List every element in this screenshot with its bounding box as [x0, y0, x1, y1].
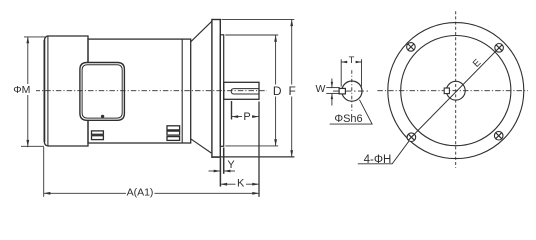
arrowheads: [26, 19, 293, 194]
dim W ext bottom: [326, 92, 340, 94]
flange disc: [212, 20, 220, 158]
vent slot right 3: [167, 137, 180, 141]
centerline side view: [36, 90, 267, 92]
arrow D bottom: [274, 139, 277, 146]
dim Y line right: [224, 170, 235, 172]
label T: [348, 55, 356, 66]
leader PhiSh6: [330, 100, 372, 124]
bolt hole top-left: [407, 43, 416, 52]
section key: [339, 88, 345, 94]
dim F ext top: [222, 18, 295, 20]
vent slot right 1: [167, 126, 180, 130]
dim F ext bottom: [212, 156, 294, 158]
bolt hole top-right: [495, 44, 504, 53]
vent slot left 2: [92, 136, 104, 140]
label A(A1): [126, 186, 155, 198]
arrow P right: [252, 115, 259, 118]
hub key square: [444, 88, 449, 94]
shaft: [224, 82, 259, 99]
svg-text:F: F: [289, 84, 296, 98]
arrow A left: [44, 192, 51, 195]
svg-text:W: W: [315, 83, 325, 95]
arrow A right: [252, 192, 259, 195]
dim P line: [232, 116, 259, 118]
arrow W top: [331, 82, 333, 88]
arrow Y right: [224, 170, 231, 173]
vent slot left 1: [92, 131, 104, 134]
arrow P left: [232, 115, 239, 118]
arrow W bottom: [331, 93, 333, 99]
arrow M top: [26, 37, 29, 44]
terminal box cover outer: [80, 63, 125, 121]
dim A line: [44, 192, 259, 194]
arrow K left: [220, 183, 227, 186]
dim T line: [341, 61, 361, 63]
svg-text:ΦM: ΦM: [13, 84, 30, 96]
arrow F bottom: [290, 150, 293, 157]
hub circle: [446, 81, 465, 100]
cone top edge: [191, 21, 212, 42]
terminal box cover inner: [82, 65, 122, 118]
shaft end ext line: [258, 102, 260, 197]
rear cap inner seam: [47, 36, 49, 146]
label PhiM: [13, 84, 32, 96]
flange outer circle: [388, 23, 524, 159]
section v centerline: [351, 70, 353, 111]
dim A ext left: [43, 147, 45, 197]
T arrows: [331, 61, 362, 99]
svg-text:K: K: [237, 178, 245, 190]
svg-text:4-ΦH: 4-ΦH: [364, 154, 392, 166]
arrow M bottom: [26, 140, 29, 147]
vent slot right 2: [167, 131, 180, 135]
arrow F top: [290, 19, 293, 26]
dim D ext top: [225, 34, 278, 36]
dim W arrow stems: [331, 79, 333, 106]
dim T ext left: [340, 59, 342, 86]
dim Y line left: [209, 170, 221, 172]
leader 4-PhiH: [358, 140, 410, 164]
dim M ext bottom: [21, 145, 44, 147]
label F: [288, 84, 297, 98]
dim D line: [275, 35, 277, 146]
arrow T left: [341, 61, 347, 63]
dim M line: [27, 37, 29, 147]
motor body: [88, 39, 191, 143]
flange face ext line: [219, 158, 221, 187]
dim K line: [220, 183, 259, 185]
spigot circle: [401, 36, 511, 146]
svg-text:A(A1): A(A1): [127, 186, 154, 198]
dim W ext top: [326, 87, 340, 89]
arrow D top: [274, 35, 277, 42]
svg-text:P: P: [243, 111, 250, 123]
dim F line: [291, 19, 293, 157]
rear end cap: [44, 36, 88, 146]
arrow K right: [252, 183, 259, 186]
body/front-ring seam: [181, 39, 183, 143]
svg-text:ΦSh6: ΦSh6: [334, 113, 362, 125]
rear cap left edge emphasis: [43, 40, 45, 142]
shaft keyway: [231, 89, 259, 94]
arrow Y left: [214, 170, 221, 173]
front v centerline: [455, 11, 457, 168]
pilot face ext line: [223, 148, 225, 174]
dim M ext top: [24, 36, 45, 38]
dim T ext right: [361, 59, 363, 86]
arrow T right: [356, 61, 362, 63]
section h centerline: [333, 90, 369, 92]
dim D ext bottom: [225, 145, 278, 147]
E diagonal line: [411, 48, 499, 137]
cone bottom edge: [191, 139, 212, 153]
section shaft circle: [342, 81, 362, 101]
pilot boss: [220, 35, 223, 147]
label P: [242, 111, 252, 123]
svg-text:Y: Y: [227, 159, 235, 171]
label K: [236, 178, 247, 190]
svg-text:T: T: [349, 55, 355, 66]
terminal box screw dot: [101, 115, 104, 118]
front h centerline: [377, 90, 528, 92]
dim P ext bar: [231, 101, 233, 120]
label D: [272, 84, 283, 98]
bolt hole bottom-right: [494, 131, 503, 140]
bolt holes: [407, 43, 504, 142]
bolt hole bottom-left: [407, 133, 416, 142]
svg-text:D: D: [273, 84, 282, 98]
